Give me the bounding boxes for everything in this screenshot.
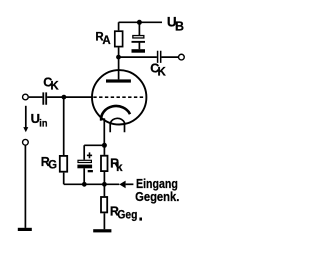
svg-text:Gegenk.: Gegenk. <box>135 189 179 204</box>
svg-text:in: in <box>39 118 47 130</box>
svg-text:K: K <box>158 67 167 79</box>
svg-text:B: B <box>175 20 184 34</box>
svg-text:Geg: Geg <box>117 210 137 222</box>
svg-text:k: k <box>116 162 123 174</box>
svg-text:K: K <box>50 80 59 92</box>
svg-text:G: G <box>48 160 57 172</box>
svg-text:A: A <box>102 35 110 47</box>
